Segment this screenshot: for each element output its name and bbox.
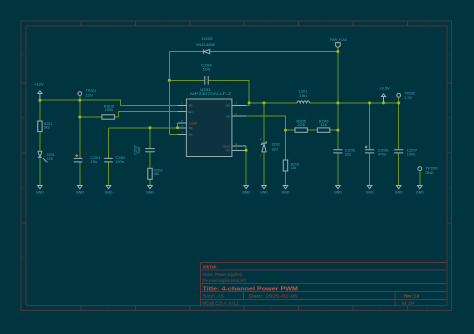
ground symbol C201 — [76, 186, 84, 195]
svg-text:MP2307DN-LF-Z: MP2307DN-LF-Z — [190, 92, 232, 96]
pin stubs U201 right — [232, 105, 246, 150]
capacitor C205 — [333, 149, 355, 157]
svg-text:22u: 22u — [345, 152, 351, 156]
svg-text:KiCad E.D.A. 9.0.1: KiCad E.D.A. 9.0.1 — [203, 300, 240, 305]
wire column R202 feed / C201 — [79, 100, 81, 185]
svg-text:5k3: 5k3 — [44, 126, 50, 130]
resistor R205 — [295, 120, 307, 133]
power symbol +3.3V — [379, 87, 390, 103]
junction SW bootstrap — [248, 101, 251, 104]
svg-text:GND: GND — [105, 191, 113, 195]
title block lines — [200, 262, 447, 305]
svg-text:IN: IN — [189, 104, 193, 108]
wire D203 column — [263, 103, 265, 185]
junction FB R204 — [284, 129, 287, 132]
svg-text:3.3V: 3.3V — [404, 96, 412, 100]
resistor R201 — [38, 121, 52, 132]
svg-text:100n: 100n — [115, 160, 124, 164]
test point TP203 — [418, 166, 438, 175]
wire D202 row — [169, 51, 338, 53]
svg-text:File: powersupplies.kicad_sch: File: powersupplies.kicad_sch — [203, 278, 246, 283]
junction L201 output — [336, 101, 339, 104]
frame zone numbers top — [53, 22, 429, 26]
svg-text:COMP: COMP — [189, 121, 198, 125]
wire +3.3V rail — [338, 102, 399, 104]
test point TP201 — [78, 89, 97, 98]
junction TP201 — [78, 99, 81, 102]
wire C206 column — [369, 103, 371, 185]
junction TP202 C207 — [397, 101, 400, 104]
capacitor C201 — [74, 154, 101, 164]
svg-text:GND: GND — [146, 191, 154, 195]
junction C204 at BS column — [168, 79, 171, 82]
inductor L201 — [297, 89, 310, 103]
wire R201 LED column — [39, 100, 41, 185]
capacitor C207 — [394, 149, 417, 157]
svg-text:GND: GND — [366, 191, 374, 195]
ground symbol R203 — [146, 186, 154, 195]
wire C204 row — [169, 80, 249, 103]
wire C203 R203 column — [149, 128, 151, 186]
svg-text:EN: EN — [189, 110, 193, 114]
ground symbol D201 — [36, 186, 44, 195]
wire C202 column — [108, 128, 110, 186]
junction IN rail at +12V — [38, 99, 41, 102]
svg-text:GND: GND — [416, 191, 424, 195]
svg-text:1N4148W: 1N4148W — [196, 43, 216, 47]
svg-text:GND: GND — [36, 191, 44, 195]
resistor R204 — [283, 160, 298, 171]
wire R202 left — [80, 116, 102, 118]
power symbol +12V — [34, 83, 45, 101]
svg-text:Sheet: /Power supplies/: Sheet: /Power supplies/ — [203, 272, 243, 277]
sheet frame outer border — [21, 21, 452, 311]
svg-text:A: A — [22, 53, 24, 57]
ground symbol D203 — [260, 186, 268, 195]
svg-text:11k: 11k — [320, 123, 327, 127]
frame zone letters right — [448, 53, 451, 260]
svg-text:GND: GND — [426, 171, 434, 175]
svg-text:VikTek: VikTek — [203, 264, 217, 269]
svg-text:L201: L201 — [299, 89, 308, 93]
svg-text:B: B — [448, 116, 450, 120]
ground symbol C202 — [105, 186, 113, 195]
junction C206 — [368, 101, 371, 104]
svg-text:Date: 2025-02-05: Date: 2025-02-05 — [249, 293, 299, 298]
svg-text:PG: PG — [226, 149, 230, 153]
svg-text:LED: LED — [47, 157, 53, 161]
svg-text:GND: GND — [260, 191, 268, 195]
junction IC GND PG — [245, 149, 248, 152]
diode D203 — [260, 138, 280, 157]
frame zone ticks left — [21, 83, 26, 223]
svg-text:D201: D201 — [47, 153, 55, 157]
svg-text:GND: GND — [282, 191, 290, 195]
ground symbol TP203 — [416, 186, 424, 195]
ground symbol C207 — [395, 186, 403, 195]
svg-text:Size: A5: Size: A5 — [203, 293, 225, 298]
svg-text:SW: SW — [225, 104, 230, 108]
svg-text:Id: 2/4: Id: 2/4 — [402, 300, 415, 305]
wire +12V rail to IN — [40, 100, 178, 105]
wire TP203 stem — [419, 171, 421, 186]
ground symbol U201 — [242, 186, 250, 195]
wire FB divider row — [286, 129, 338, 131]
frame zone numbers bottom — [53, 307, 429, 311]
wire COMP SS net — [109, 123, 178, 128]
ground symbol C205 — [334, 186, 342, 195]
svg-text:6k8: 6k8 — [154, 172, 159, 176]
svg-text:10u: 10u — [299, 94, 306, 98]
svg-text:SS: SS — [189, 126, 193, 130]
resistor R202 — [102, 105, 115, 120]
sheet frame inner border — [26, 26, 447, 306]
svg-text:Rev: 1.0: Rev: 1.0 — [404, 293, 420, 298]
wire IC GND PG to ground — [245, 146, 247, 185]
junction C203 branch — [149, 126, 152, 129]
power flag PWR_FLAG — [330, 38, 348, 47]
wire +3.3V stem — [383, 97, 385, 103]
svg-text:D203: D203 — [272, 143, 280, 147]
svg-text:GND: GND — [334, 191, 342, 195]
wire FB net — [246, 116, 286, 160]
svg-text:12k: 12k — [291, 166, 297, 170]
junction FB divider output — [336, 129, 339, 132]
capacitor C202 — [104, 156, 125, 164]
svg-text:Title: 4-channel Power PWM: Title: 4-channel Power PWM — [203, 286, 299, 292]
junction R202 feed — [78, 116, 81, 119]
resistor R203 — [148, 168, 163, 179]
wire SW to L201 — [246, 103, 338, 106]
op-amp U201 body — [186, 88, 232, 157]
svg-text:GND: GND — [242, 191, 250, 195]
LED D201 — [38, 151, 55, 162]
svg-text:+3.3V: +3.3V — [379, 87, 390, 91]
svg-text:D202: D202 — [202, 37, 213, 41]
svg-text:100k: 100k — [105, 108, 114, 112]
svg-text:TP202: TP202 — [404, 91, 415, 95]
resistor R206 — [317, 120, 329, 133]
capacitor C203 — [134, 146, 155, 155]
capacitor C204 — [201, 63, 212, 84]
junction PWR_FLAG — [336, 50, 339, 53]
junction +3.3V — [382, 101, 385, 104]
capacitor C206 — [365, 146, 389, 157]
svg-text:+12V: +12V — [34, 83, 45, 87]
wire PWR_FLAG stem — [337, 48, 339, 52]
svg-text:GND: GND — [395, 191, 403, 195]
wire TP202 stem / C207 column — [398, 97, 400, 185]
svg-text:B: B — [22, 116, 24, 120]
frame zone ticks top — [81, 21, 407, 26]
wire TP201 stem — [79, 95, 81, 100]
svg-text:100n: 100n — [407, 152, 416, 156]
svg-text:TP201: TP201 — [86, 89, 97, 93]
test point TP202 — [397, 91, 415, 100]
svg-text:470u: 470u — [378, 152, 387, 156]
svg-text:12V: 12V — [86, 93, 94, 97]
frame zone ticks right — [447, 83, 451, 223]
svg-text:FB: FB — [226, 115, 230, 119]
svg-text:3u3: 3u3 — [137, 147, 141, 154]
frame zone letters left — [22, 53, 25, 260]
svg-text:10n: 10n — [203, 67, 211, 71]
ground symbol C206 — [366, 186, 374, 195]
diode D202 — [196, 37, 216, 54]
wire R204 to GND — [285, 171, 287, 185]
frame zone ticks bottom — [81, 306, 407, 311]
svg-text:SS14: SS14 — [272, 147, 278, 151]
svg-text:22k: 22k — [297, 123, 305, 127]
svg-text:GND: GND — [76, 191, 84, 195]
junction SW D203 — [263, 101, 266, 104]
wire R202 right to EN — [115, 112, 178, 117]
junction COMP SS — [176, 126, 179, 129]
wire bootstrap column to BS — [169, 52, 177, 135]
pin stubs U201 left — [178, 105, 187, 134]
svg-text:A: A — [448, 53, 450, 57]
svg-text:TP203: TP203 — [426, 166, 438, 170]
wire output rail vertical — [337, 52, 339, 186]
ground symbol R204 — [282, 186, 290, 195]
svg-text:BS: BS — [189, 133, 193, 137]
svg-text:PWR_FLAG: PWR_FLAG — [330, 38, 348, 42]
svg-text:15u: 15u — [90, 160, 97, 164]
